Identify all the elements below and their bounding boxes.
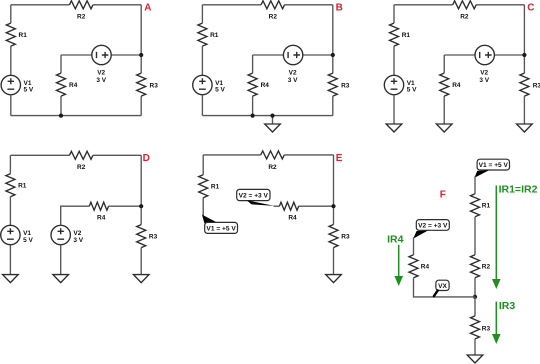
svg-text:5 V: 5 V [215, 87, 225, 94]
ground (C R4) [436, 124, 452, 132]
junction node B right [331, 53, 335, 57]
ground (D R3) [133, 275, 149, 283]
wire right C [523, 5, 525, 124]
svg-text:R4: R4 [288, 214, 297, 221]
wire mid A [61, 54, 141, 56]
svg-text:R3: R3 [533, 83, 540, 90]
probe VX box (F) [436, 280, 449, 290]
voltage source V2 (C) [475, 45, 494, 64]
resistor R1 (B) [198, 23, 207, 46]
wire R4 branch C [443, 55, 445, 124]
svg-text:C: C [527, 3, 534, 14]
svg-text:R2: R2 [77, 13, 86, 20]
junction node C right [522, 53, 526, 57]
svg-text:R1: R1 [482, 203, 491, 210]
wire V1 bottom B [201, 95, 203, 116]
resistor R2 (B) [261, 1, 285, 9]
svg-text:R3: R3 [482, 326, 491, 333]
svg-text:R3: R3 [341, 234, 350, 241]
wire R4 bottom (F) [414, 278, 476, 297]
wire left E [202, 155, 204, 218]
svg-text:R1: R1 [19, 32, 28, 39]
resistor R2 (E) [261, 151, 285, 159]
current arrow IR1=IR2 (F) [492, 185, 501, 289]
svg-text:R2: R2 [460, 13, 469, 20]
wire right E [333, 155, 335, 274]
wire left C [393, 5, 395, 76]
resistor R3 (C) [520, 73, 529, 96]
resistor R1 (F) [471, 194, 480, 217]
svg-text:V1: V1 [23, 230, 31, 237]
wire left D [9, 155, 11, 225]
wire mid C [444, 54, 524, 56]
resistor R1 (D) [6, 174, 15, 197]
svg-text:B: B [336, 3, 343, 14]
svg-text:VX: VX [438, 283, 447, 290]
junction node A bottom [59, 114, 63, 118]
wire top E [203, 154, 333, 156]
svg-text:IR3: IR3 [499, 300, 516, 312]
svg-text:E: E [336, 153, 343, 164]
svg-text:5 V: 5 V [407, 87, 417, 94]
svg-text:V2 = +3 V: V2 = +3 V [239, 192, 269, 199]
wire V1 ground stub C [393, 95, 395, 124]
resistor R2 (D) [69, 151, 93, 159]
wire right B [332, 5, 334, 116]
wire top C [394, 4, 524, 6]
ground (C V1) [386, 124, 402, 132]
ground (D V1) [3, 275, 19, 283]
resistor R1 (E) [199, 175, 208, 198]
resistor R2 (C) [453, 1, 477, 9]
svg-text:R4: R4 [261, 82, 270, 89]
resistor R3 (A) [137, 73, 146, 96]
wire top A [11, 4, 141, 6]
svg-text:R4: R4 [69, 82, 78, 89]
resistor R4 (D) [89, 202, 108, 210]
voltage source V1 (D) [1, 225, 20, 244]
voltage source V2 (B) [283, 45, 302, 64]
svg-text:D: D [143, 153, 150, 164]
resistor R3 (F) [471, 316, 480, 339]
junction node E [331, 204, 335, 208]
wire V2 to R4 (F) [413, 237, 415, 255]
resistor R3 (E) [329, 225, 338, 248]
ground (D V2) [53, 275, 69, 283]
junction node B ground [270, 114, 274, 118]
resistor R4 (A) [57, 73, 66, 96]
svg-text:5 V: 5 V [24, 87, 34, 94]
voltage source V2 (D) [51, 225, 70, 244]
wire R4 to right D [109, 205, 142, 207]
svg-text:R1: R1 [402, 32, 411, 39]
svg-text:R3: R3 [149, 233, 158, 240]
junction node D [139, 204, 143, 208]
svg-text:A: A [144, 3, 151, 14]
svg-text:R1: R1 [18, 183, 27, 190]
svg-text:3 V: 3 V [288, 77, 298, 84]
svg-text:5 V: 5 V [23, 237, 33, 244]
resistor R1 (C) [390, 23, 399, 46]
voltage source V2 (A) [92, 45, 111, 64]
resistor R4 (F) [409, 255, 418, 278]
wire V1 bottom A [10, 95, 12, 116]
voltage source V1 (A) [1, 75, 20, 94]
resistor R3 (D) [137, 225, 146, 248]
flag wedge V1 (E) [202, 215, 217, 224]
wire top B [202, 4, 332, 6]
svg-text:R4: R4 [97, 215, 106, 222]
junction node A right [139, 53, 143, 57]
svg-text:IR4: IR4 [387, 233, 404, 245]
wire right A [140, 5, 142, 116]
resistor R4 (C) [440, 73, 449, 96]
wire R4 (E) [274, 205, 334, 207]
junction node B bottom R4 [251, 114, 255, 118]
wire V1 ground stub D [9, 245, 11, 275]
wire mid B [253, 54, 333, 56]
svg-text:R1: R1 [211, 184, 220, 191]
wire R1 to R2 (F) [474, 217, 476, 255]
resistor R1 (A) [6, 23, 15, 46]
net label V1 box (F) [477, 159, 509, 170]
ground (C R3) [517, 124, 533, 132]
ground (F) [467, 355, 483, 363]
net label V2 box (F) [416, 220, 449, 231]
svg-text:R2: R2 [268, 164, 277, 171]
probe VX pointer (F) [434, 290, 438, 296]
resistor R3 (B) [328, 73, 337, 96]
svg-text:3 V: 3 V [73, 237, 83, 244]
wire R2 to junction (F) [474, 278, 476, 297]
svg-text:V2 = +3 V: V2 = +3 V [418, 222, 448, 229]
resistor R2 (A) [69, 1, 93, 9]
flag wedge V2 (F) [413, 231, 428, 239]
svg-text:3 V: 3 V [96, 77, 106, 84]
svg-text:R2: R2 [482, 264, 491, 271]
resistor R4 (E) [279, 202, 298, 210]
ground (B) [265, 124, 281, 132]
wire R4 branch A [60, 55, 62, 116]
resistor R4 (B) [248, 73, 257, 96]
current arrow IR3 (F) [492, 302, 501, 344]
current arrow IR4 (F) [394, 245, 403, 286]
wire V2 top D [61, 206, 90, 225]
svg-text:IR1=IR2: IR1=IR2 [499, 184, 538, 196]
svg-text:V2: V2 [480, 69, 488, 76]
svg-text:V2: V2 [289, 69, 297, 76]
svg-text:R2: R2 [269, 13, 278, 20]
wire R3 to ground (F) [474, 339, 476, 355]
wire bottom B [202, 115, 332, 117]
wire V2 ground stub D [60, 245, 62, 275]
ground (E) [326, 275, 342, 283]
svg-text:3 V: 3 V [479, 77, 489, 84]
flag wedge V2 (E) [247, 200, 274, 206]
wire V1 to R1 (F) [474, 176, 476, 194]
wire top D [10, 154, 141, 156]
wire left A [10, 5, 12, 76]
net label V2 box (E) [237, 189, 270, 200]
flag wedge V1 (F) [475, 170, 490, 178]
svg-text:R3: R3 [150, 83, 159, 90]
wire left B [201, 5, 203, 76]
voltage source V1 (C) [384, 75, 403, 94]
svg-text:R4: R4 [452, 82, 461, 89]
svg-text:V1 = +5 V: V1 = +5 V [479, 162, 509, 169]
svg-text:R3: R3 [341, 83, 350, 90]
svg-text:R2: R2 [77, 164, 86, 171]
junction node F [473, 295, 477, 299]
svg-text:R1: R1 [210, 32, 219, 39]
svg-text:V1 = +5 V: V1 = +5 V [206, 225, 236, 232]
svg-text:V2: V2 [97, 69, 105, 76]
svg-text:F: F [440, 190, 446, 201]
wire ground stub B [272, 116, 274, 124]
svg-text:R4: R4 [421, 264, 430, 271]
svg-text:V2: V2 [73, 230, 81, 237]
resistor R2 (F) [471, 255, 480, 278]
wire junction to R3 (F) [474, 297, 476, 316]
wire right D [140, 155, 142, 274]
wire bottom A [11, 115, 141, 117]
voltage source V1 (B) [193, 75, 212, 94]
net label V1 box (E) [205, 222, 238, 233]
wire R4 branch B [252, 55, 254, 116]
